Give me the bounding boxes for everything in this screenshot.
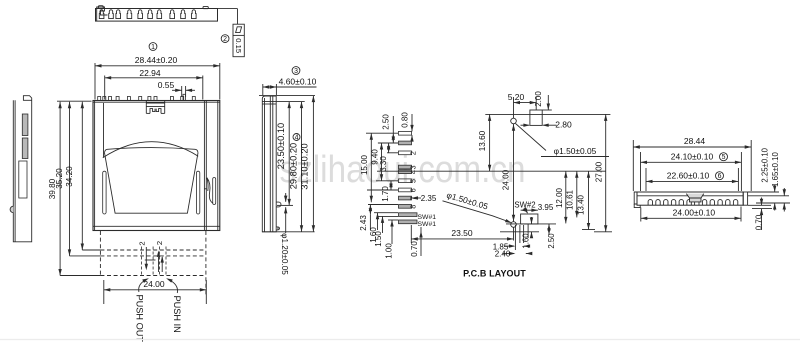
dim 5.20 [513, 97, 515, 118]
dim 12.00 [565, 171, 567, 223]
svg-text:8: 8 [409, 205, 418, 209]
card detect spring [213, 178, 216, 205]
dim 24.00+-0.10 [640, 208, 642, 222]
svg-text:3: 3 [294, 68, 298, 75]
svg-text:1.00: 1.00 [385, 243, 394, 259]
svg-text:28.44±0.20: 28.44±0.20 [135, 55, 178, 65]
svg-text:29.80±0.20: 29.80±0.20 [289, 143, 299, 189]
svg-text:0.70: 0.70 [754, 214, 763, 230]
svg-text:13.40: 13.40 [577, 194, 586, 215]
pcb top line [485, 113, 610, 115]
center latch detail [145, 101, 147, 114]
svg-text:2.35: 2.35 [421, 194, 437, 203]
svg-text:2.40: 2.40 [495, 250, 511, 259]
dim 15.00 [370, 133, 372, 202]
dim 28.44 right [632, 140, 634, 191]
slot verticals [514, 225, 516, 250]
svg-text:23.50: 23.50 [451, 228, 473, 238]
dim 2.50 right [548, 224, 550, 235]
svg-text:2: 2 [409, 151, 418, 155]
flatness detail frame 0.15 [233, 24, 244, 57]
dim 2.35 [412, 196, 419, 199]
dim 29.80+-0.20 [301, 102, 303, 232]
dim 2.80 [521, 124, 529, 126]
dim 0.80 [411, 114, 413, 131]
svg-text:2.00: 2.00 [534, 91, 543, 107]
top view body [96, 9, 218, 22]
svg-text:23.50±0.10: 23.50±0.10 [276, 123, 286, 169]
svg-text:4.60±0.10: 4.60±0.10 [279, 76, 317, 86]
svg-text:24.00: 24.00 [502, 169, 511, 190]
dim 9.40 [381, 143, 383, 181]
dim 22.60+-0.10 [645, 168, 647, 191]
page rule [0, 339, 800, 341]
svg-text:φ1.50±0.05: φ1.50±0.05 [554, 146, 597, 156]
dim 13.40 [588, 171, 590, 229]
svg-text:2.80: 2.80 [555, 120, 572, 130]
pcb reference line [377, 170, 606, 172]
bottom view latch [686, 194, 704, 202]
svg-text:24.00: 24.00 [143, 279, 165, 289]
dim 24.10+-0.10 [640, 152, 642, 191]
dim 1.60 left [377, 213, 379, 230]
bottom view pins [648, 200, 652, 205]
top view contact pins [99, 10, 104, 19]
svg-text:5: 5 [409, 179, 418, 183]
dim 31.10+-0.20 [259, 95, 315, 97]
dim 34.20 [81, 102, 83, 250]
dim 13.60 [489, 114, 491, 171]
svg-text:2: 2 [223, 36, 227, 43]
svg-text:6: 6 [409, 188, 418, 192]
svg-text:2: 2 [138, 241, 147, 245]
svg-text:1.65±0.10: 1.65±0.10 [771, 152, 780, 187]
dim 24.00 front [103, 280, 105, 304]
svg-text:1.70: 1.70 [381, 186, 390, 202]
dim 23.50 pcb [410, 225, 412, 243]
svg-text:SW#1: SW#1 [418, 214, 437, 221]
dims 2.25 and 1.65 [748, 191, 779, 193]
dim 24.00 pcb [512, 124, 515, 131]
svg-text:2.50: 2.50 [547, 233, 556, 249]
balloon 6 [716, 172, 724, 180]
dim 22.94 [104, 76, 106, 100]
ext line top left [57, 100, 92, 102]
balloon 3 [292, 67, 300, 75]
left contact spring [103, 171, 106, 214]
sd card outline [105, 148, 199, 153]
dim 2.00 [542, 109, 552, 111]
svg-text:3.95: 3.95 [538, 203, 554, 212]
mount peg [276, 202, 281, 207]
svg-text:22.60±0.10: 22.60±0.10 [667, 171, 710, 181]
svg-text:PUSH OUT: PUSH OUT [135, 295, 145, 342]
leader to detail 2 [218, 8, 238, 10]
svg-text:1.50: 1.50 [374, 231, 383, 247]
svg-text:φ1.20±0.05: φ1.20±0.05 [280, 233, 289, 275]
svg-text:12.00: 12.00 [555, 187, 564, 208]
dashed card travel outline [100, 249, 205, 251]
svg-text:0.15: 0.15 [234, 38, 243, 53]
dim 35.20 [69, 102, 71, 256]
svg-text:2.43: 2.43 [359, 215, 368, 231]
svg-text:5: 5 [722, 154, 726, 161]
dim 1.00 [391, 220, 393, 244]
svg-text:27.00: 27.00 [595, 161, 604, 182]
dim 28.44+-0.20 [94, 63, 96, 100]
dim 3.95 [521, 209, 538, 211]
right contact spring [196, 171, 199, 214]
pcb pads column [399, 131, 412, 135]
svg-text:P.C.B LAYOUT: P.C.B LAYOUT [463, 269, 526, 279]
svg-text:5.20: 5.20 [508, 92, 525, 102]
dashed center slider [140, 247, 142, 276]
pcb hole 1 [511, 118, 517, 124]
dim 39.80 [59, 102, 61, 276]
balloon 5 [720, 153, 728, 161]
balloon 2 [221, 35, 229, 43]
mount peg 2 [276, 227, 279, 230]
svg-text:0.70: 0.70 [410, 241, 419, 257]
svg-text:35.20: 35.20 [55, 168, 64, 189]
side view left body [13, 96, 31, 242]
dim 0.70 pcb [420, 227, 422, 256]
svg-text:6: 6 [718, 173, 722, 180]
svg-text:13.60: 13.60 [478, 130, 487, 151]
svg-text:22.94: 22.94 [139, 68, 161, 78]
side view 3 body [262, 96, 276, 232]
front view top pins [98, 97, 101, 101]
svg-text:1: 1 [151, 44, 155, 51]
dim phi1.20 peg [285, 193, 287, 202]
svg-text:4: 4 [295, 135, 299, 142]
svg-text:SW#1: SW#1 [418, 221, 437, 228]
dim 2.43 [369, 205, 371, 215]
pcb line y224 [506, 223, 556, 225]
balloon 1 [149, 43, 157, 51]
dim 2.40 [509, 252, 516, 255]
dim 2.50 pcb [392, 116, 394, 143]
svg-text:31.10±0.20: 31.10±0.20 [300, 143, 310, 189]
pcb line y231.8 [500, 231, 539, 233]
dim 4.60+-0.10 [262, 84, 264, 95]
dim 1.50 [382, 216, 384, 233]
svg-text:2.25±0.10: 2.25±0.10 [760, 147, 769, 182]
dim 0.55 [181, 86, 183, 97]
sw2 pad [521, 214, 538, 224]
svg-text:0.80: 0.80 [401, 112, 410, 128]
travel dims 2mm [145, 247, 147, 268]
dim 10.61 [576, 171, 578, 217]
dim 0.70 right [752, 208, 772, 210]
svg-text:24.10±0.10: 24.10±0.10 [671, 152, 714, 162]
bottom view body [637, 192, 743, 205]
svg-text:34.20: 34.20 [65, 166, 74, 187]
svg-text:2: 2 [155, 241, 164, 245]
dim 1.70 [390, 181, 392, 190]
svg-text:PUSH IN: PUSH IN [172, 296, 182, 333]
svg-text:15.00: 15.00 [360, 154, 369, 175]
pcb hole 2 [511, 222, 517, 228]
leader phi1.50 hole1 [516, 124, 547, 151]
hole center line [513, 124, 515, 222]
svg-text:3: 3 [409, 165, 418, 169]
svg-text:0.55: 0.55 [158, 80, 175, 90]
dim 3.30 [388, 143, 390, 153]
pcb tab [530, 110, 542, 125]
dim 1.60 right [531, 217, 533, 224]
dim 23.50+-0.10 [262, 101, 305, 103]
svg-text:28.44: 28.44 [684, 136, 706, 146]
svg-text:3.30: 3.30 [379, 156, 388, 172]
front view body [93, 101, 220, 231]
svg-text:1.60: 1.60 [522, 233, 531, 249]
svg-text:4: 4 [409, 170, 418, 174]
pcb ext lines [366, 132, 398, 134]
balloon 4 [293, 134, 300, 141]
dim 27.00 [605, 114, 607, 231]
dim 1.85 [509, 244, 516, 247]
svg-text:24.00±0.10: 24.00±0.10 [673, 208, 716, 218]
svg-text:10.61: 10.61 [565, 189, 574, 210]
svg-text:2.50: 2.50 [381, 114, 390, 130]
card spring dome [103, 142, 198, 158]
